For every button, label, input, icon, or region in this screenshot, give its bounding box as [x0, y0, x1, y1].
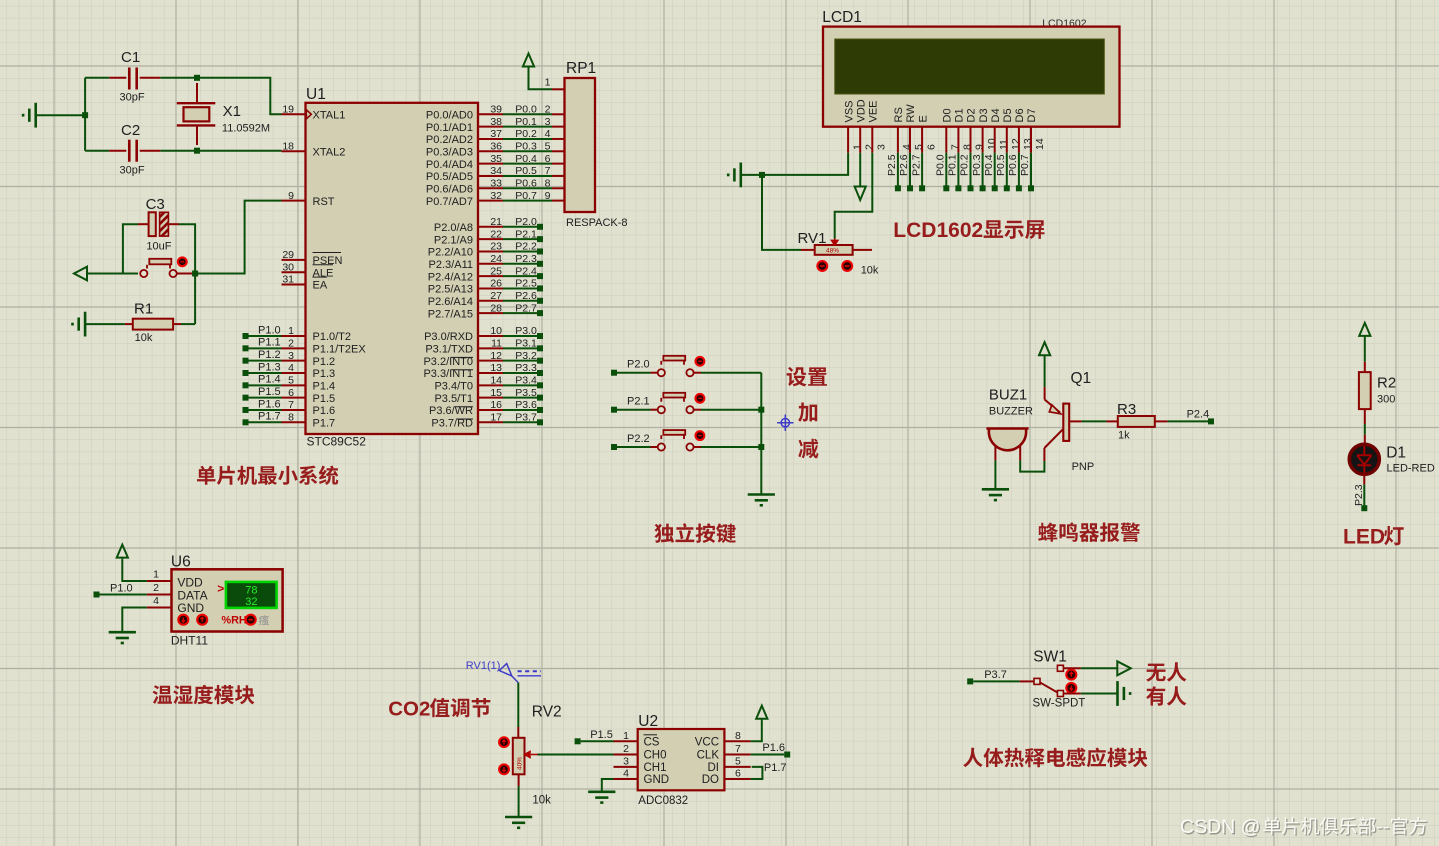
- svg-text:>: >: [217, 581, 224, 595]
- svg-text:38: 38: [490, 116, 502, 128]
- U6 pin 2 DATA: [147, 594, 172, 596]
- RV2 actuator up: [499, 737, 509, 747]
- DHT11 actuator down: [178, 615, 188, 625]
- wire CLK to P1.6: [751, 754, 785, 756]
- svg-text:P1.7: P1.7: [313, 418, 336, 430]
- svg-text:P2.4: P2.4: [515, 265, 537, 277]
- svg-text:30pF: 30pF: [120, 92, 145, 104]
- capacitor C3 10uF electrolytic: [149, 212, 156, 236]
- ground terminal at R1: [73, 312, 86, 337]
- ground terminal left of crystal: [23, 103, 36, 128]
- pin 28 P2.7 stub + wire: [478, 312, 503, 314]
- svg-text:18: 18: [282, 140, 294, 152]
- node LCD ground junction: [759, 172, 765, 178]
- svg-text:P0.0/AD0: P0.0/AD0: [426, 110, 473, 122]
- LED D1 LED-RED: [1349, 444, 1379, 474]
- power terminal U2: [756, 706, 767, 724]
- ground terminal SW1: [1118, 681, 1131, 706]
- wire RP1 pin1 to VCC: [529, 67, 553, 90]
- svg-text:1k: 1k: [1118, 430, 1130, 442]
- svg-text:14: 14: [490, 375, 502, 387]
- svg-text:XTAL1: XTAL1: [313, 110, 346, 122]
- svg-text:PNP: PNP: [1072, 461, 1095, 473]
- svg-text:P0.4: P0.4: [515, 153, 537, 165]
- svg-text:12: 12: [490, 350, 502, 362]
- wire Q1 base to R3: [1069, 420, 1081, 422]
- svg-text:6: 6: [288, 387, 294, 399]
- svg-text:LED: LED: [1343, 526, 1385, 549]
- svg-text:30pF: 30pF: [120, 165, 145, 177]
- svg-text:P1.5: P1.5: [313, 393, 336, 405]
- svg-text:RESPACK-8: RESPACK-8: [566, 217, 628, 229]
- svg-text:RV1: RV1: [798, 230, 827, 247]
- svg-text:11.0592M: 11.0592M: [222, 123, 270, 135]
- svg-text:6: 6: [735, 768, 741, 780]
- ground terminal buzzer: [982, 489, 1009, 500]
- U6 pin 1 VDD: [147, 580, 172, 582]
- pin 1 P1.0 stub + wire + terminal: [282, 335, 306, 337]
- svg-text:P2.0/A8: P2.0/A8: [434, 222, 473, 234]
- U2 pin 8 stub: [724, 740, 750, 742]
- svg-text:78: 78: [245, 585, 257, 597]
- svg-text:DO: DO: [702, 774, 719, 786]
- label set key: [787, 367, 827, 387]
- svg-text:C1: C1: [121, 49, 140, 66]
- svg-text:P3.6: P3.6: [515, 399, 537, 411]
- svg-text:P2.3/A11: P2.3/A11: [429, 259, 473, 271]
- svg-text:24: 24: [490, 253, 502, 265]
- RV1 actuator plus: [842, 261, 852, 271]
- svg-text:RP1: RP1: [566, 60, 596, 77]
- pin 3 P1.2 stub + wire + terminal: [282, 360, 306, 362]
- RP1 pin 1 stub: [552, 88, 565, 90]
- wire left rail: [84, 78, 86, 151]
- wire LCD D6 net P0.6: [1018, 153, 1020, 186]
- svg-text:P0.3: P0.3: [971, 154, 983, 176]
- svg-text:39: 39: [490, 104, 502, 116]
- svg-text:P0.6: P0.6: [1007, 154, 1019, 176]
- svg-text:48%: 48%: [826, 248, 839, 255]
- svg-text:CH1: CH1: [644, 762, 667, 774]
- svg-text:P2.6: P2.6: [898, 154, 910, 176]
- origin marker: [777, 415, 793, 431]
- wire U1 pin 37 P0.2 to RP1 pin 4: [478, 138, 503, 140]
- svg-text:ADC0832: ADC0832: [638, 795, 688, 807]
- svg-text:P2.6: P2.6: [515, 290, 537, 302]
- pin 26 P2.5 stub + wire: [478, 287, 503, 289]
- SW1 actuator down: [1066, 683, 1076, 693]
- svg-text:19: 19: [282, 104, 294, 116]
- svg-text:9: 9: [545, 190, 551, 202]
- svg-text:D6: D6: [1014, 108, 1026, 122]
- svg-text:P1.5: P1.5: [590, 729, 613, 741]
- potentiometer RV2 10k: [513, 738, 525, 775]
- svg-text:4: 4: [288, 362, 294, 374]
- svg-text:P3.0: P3.0: [515, 325, 537, 337]
- svg-text:10: 10: [986, 138, 998, 150]
- svg-text:P3.2: P3.2: [515, 350, 537, 362]
- svg-text:1: 1: [153, 569, 159, 581]
- svg-text:26: 26: [490, 278, 502, 290]
- pin 19 XTAL1 clock-input arrow: [306, 110, 311, 119]
- wire GND to ground: [122, 608, 147, 633]
- svg-text:7: 7: [545, 165, 551, 177]
- svg-text:P2.2: P2.2: [627, 433, 650, 445]
- svg-text:1: 1: [545, 77, 551, 89]
- wire LCD D0 net P0.0: [945, 153, 947, 186]
- push button key P2.2: [651, 446, 658, 448]
- svg-text:P0.0: P0.0: [515, 104, 537, 116]
- svg-text:40%: 40%: [517, 757, 524, 770]
- U2 pin 2 stub: [614, 754, 638, 756]
- svg-text:P3.4/T0: P3.4/T0: [434, 381, 473, 393]
- svg-text:P1.4: P1.4: [313, 381, 336, 393]
- U2 pin 4 stub: [614, 778, 638, 780]
- svg-text:D0: D0: [942, 108, 954, 122]
- svg-text:P2.7: P2.7: [910, 154, 922, 176]
- pin 2 P1.1 stub + wire + terminal: [282, 347, 306, 349]
- wire LCD RS net P2.5: [897, 153, 899, 186]
- svg-text:DHT11: DHT11: [171, 634, 208, 648]
- svg-text:D3: D3: [978, 108, 990, 122]
- svg-text:%RH: %RH: [222, 614, 247, 626]
- svg-text:D1: D1: [954, 108, 966, 122]
- svg-text:4: 4: [901, 144, 913, 150]
- pin 7 P1.6 stub + wire + terminal: [282, 409, 306, 411]
- wire U1 pin 39 P0.0 to RP1 pin 2: [478, 113, 503, 115]
- svg-text:P0.4: P0.4: [983, 154, 995, 176]
- svg-text:RW: RW: [905, 104, 917, 123]
- wire ground junction down to RV1: [762, 175, 801, 250]
- wire R2 to D1: [1364, 424, 1366, 435]
- ground terminal left of LCD: [728, 163, 741, 188]
- U2 pin 3 stub: [614, 766, 638, 768]
- svg-text:29: 29: [282, 249, 294, 261]
- wire U1 pin 33 P0.6 to RP1 pin 8: [478, 187, 503, 189]
- svg-text:9: 9: [974, 144, 986, 150]
- svg-text:BUZZER: BUZZER: [989, 406, 1033, 418]
- pin 21 P2.0 stub + wire: [478, 226, 503, 228]
- svg-text:D2: D2: [966, 108, 978, 122]
- wire DATA to P1.0: [100, 594, 147, 596]
- svg-text:P3.4: P3.4: [515, 375, 537, 387]
- pin 6 P1.5 stub + wire + terminal: [282, 397, 306, 399]
- svg-text:P2.3: P2.3: [1353, 484, 1365, 506]
- svg-text:DI: DI: [708, 762, 720, 774]
- svg-text:P2.4: P2.4: [1187, 409, 1210, 421]
- RV1 actuator minus: [817, 261, 827, 271]
- node bus junction 1: [758, 407, 764, 413]
- svg-text:P3.5/T1: P3.5/T1: [434, 393, 473, 405]
- svg-text:CLK: CLK: [697, 750, 720, 762]
- potentiometer RV1 10k: [801, 249, 815, 251]
- capacitor C2 30pF: [85, 150, 109, 152]
- resistor pack RP1 RESPACK-8: [565, 78, 596, 212]
- node bus junction 2: [758, 444, 764, 450]
- pin 17 P3.7 stub + wire: [478, 421, 503, 423]
- node C2/X1 junction: [194, 148, 200, 154]
- svg-text:CO2: CO2: [388, 698, 430, 721]
- svg-text:P2.2/A10: P2.2/A10: [428, 247, 473, 259]
- power terminal LCD VDD (down arrow): [859, 153, 861, 187]
- svg-text:P2.6/A14: P2.6/A14: [428, 296, 473, 308]
- svg-text:P1.2: P1.2: [313, 356, 336, 368]
- power terminal DHT11: [117, 545, 128, 560]
- svg-text:P2.2: P2.2: [515, 241, 537, 253]
- capacitor C1 30pF: [85, 77, 109, 79]
- svg-text:X1: X1: [223, 103, 241, 120]
- wire LCD VSS to ground: [762, 153, 848, 175]
- resistor R3 1k: [1106, 420, 1117, 422]
- svg-text:34: 34: [490, 165, 502, 177]
- pin 25 P2.4 stub + wire: [478, 275, 503, 277]
- svg-text:VSS: VSS: [843, 100, 855, 122]
- svg-text:31: 31: [282, 274, 294, 286]
- U2 pin 6 stub: [724, 778, 750, 780]
- svg-text:32: 32: [245, 596, 257, 608]
- svg-text:11: 11: [491, 338, 502, 350]
- node left rail junction: [82, 112, 88, 118]
- power terminal LED: [1359, 323, 1370, 362]
- svg-text:1: 1: [851, 144, 863, 150]
- svg-text:P2.1: P2.1: [515, 228, 537, 240]
- svg-text:9: 9: [288, 190, 294, 202]
- wire key ground bus: [760, 373, 762, 495]
- pin 13 P3.3 stub + wire: [478, 372, 503, 374]
- svg-text:4: 4: [153, 595, 159, 607]
- RV2 actuator down: [499, 764, 509, 774]
- svg-text:27: 27: [490, 290, 502, 302]
- pin 31 EA stub: [282, 284, 306, 286]
- reset output terminal arrow: [74, 267, 87, 281]
- svg-text:P1.6: P1.6: [762, 742, 785, 754]
- svg-text:GND: GND: [177, 601, 204, 615]
- wire D1 to P2.3: [1363, 474, 1365, 485]
- svg-text:P0.5: P0.5: [515, 165, 537, 177]
- svg-text:5: 5: [288, 375, 294, 387]
- svg-text:P0.1: P0.1: [947, 154, 959, 176]
- wire U1 pin 35 P0.4 to RP1 pin 6: [478, 163, 503, 165]
- svg-text:U6: U6: [171, 554, 191, 571]
- U2 pin 7 stub: [724, 754, 750, 756]
- svg-text:3: 3: [876, 144, 888, 150]
- svg-text:P1.0/T2: P1.0/T2: [313, 331, 352, 343]
- pin 11 P3.1 stub + wire: [478, 347, 503, 349]
- svg-text:P2.0: P2.0: [515, 216, 537, 228]
- key terminal P2.0: [611, 370, 617, 376]
- wire LCD D4 net P0.4: [994, 153, 996, 186]
- pin 9 RST stub: [282, 200, 306, 202]
- svg-text:25: 25: [490, 265, 502, 277]
- svg-text:CS: CS: [644, 737, 660, 749]
- svg-text:P0.7: P0.7: [1019, 154, 1031, 176]
- push button key P2.1: [651, 409, 658, 411]
- svg-text:2: 2: [288, 338, 294, 350]
- svg-text:P0.3/AD3: P0.3/AD3: [426, 146, 473, 158]
- svg-text:P1.4: P1.4: [258, 374, 281, 386]
- svg-text:32: 32: [490, 190, 502, 202]
- svg-text:P0.3: P0.3: [515, 140, 537, 152]
- svg-text:STC89C52: STC89C52: [307, 435, 367, 449]
- power terminal buzzer: [1039, 342, 1050, 387]
- svg-text:BUZ1: BUZ1: [989, 387, 1027, 404]
- svg-text:37: 37: [490, 128, 502, 140]
- pin 8 P1.7 stub + wire + terminal: [282, 421, 306, 423]
- svg-text:P0.6/AD6: P0.6/AD6: [426, 183, 473, 195]
- svg-text:10uF: 10uF: [146, 241, 171, 253]
- pin 24 P2.3 stub + wire: [478, 263, 503, 265]
- label no person: [1146, 662, 1186, 681]
- svg-text:8: 8: [962, 144, 974, 150]
- svg-text:8: 8: [545, 177, 551, 189]
- svg-text:13: 13: [1022, 138, 1034, 150]
- svg-text:P1.2: P1.2: [258, 349, 281, 361]
- pin 22 P2.1 stub + wire: [478, 238, 503, 240]
- SW1 actuator up: [1066, 670, 1076, 680]
- svg-text:P1.6: P1.6: [313, 405, 336, 417]
- svg-text:2: 2: [863, 144, 875, 150]
- wire VCC to power: [751, 724, 762, 742]
- svg-text:SW-SPDT: SW-SPDT: [1033, 698, 1086, 710]
- svg-text:P0.4/AD4: P0.4/AD4: [426, 159, 473, 171]
- svg-text:23: 23: [490, 241, 502, 253]
- buzzer left leg to ground: [994, 446, 996, 461]
- svg-text:P1.6: P1.6: [258, 398, 281, 410]
- svg-text:22: 22: [490, 228, 502, 240]
- pin 30 ALE stub: [282, 271, 306, 273]
- DHT11 actuator left-right: [246, 615, 256, 625]
- svg-text:RV1(1): RV1(1): [466, 660, 501, 672]
- svg-text:P1.0: P1.0: [258, 324, 281, 336]
- pin 14 P3.4 stub + wire: [478, 384, 503, 386]
- svg-text:P2.5: P2.5: [515, 278, 537, 290]
- svg-text:U1: U1: [306, 86, 326, 103]
- wire LCD D5 net P0.5: [1006, 153, 1008, 186]
- pin 10 P3.0 stub + wire: [478, 335, 503, 337]
- svg-text:P0.7: P0.7: [515, 190, 537, 202]
- svg-text:11: 11: [998, 139, 1010, 150]
- pin 15 P3.5 stub + wire: [478, 397, 503, 399]
- wire LCD E net P2.7: [921, 153, 923, 186]
- wire SW1 bottom throw to ground: [1064, 693, 1081, 695]
- label heading buzzer alarm: [1038, 522, 1140, 542]
- svg-text:LCD1: LCD1: [822, 9, 862, 26]
- svg-text:P0.1/AD1: P0.1/AD1: [426, 122, 473, 134]
- svg-text:14: 14: [1034, 138, 1046, 150]
- svg-text:GND: GND: [644, 774, 670, 786]
- svg-text:P2.0: P2.0: [627, 359, 650, 371]
- svg-text:P0.6: P0.6: [515, 177, 537, 189]
- svg-text:RS: RS: [893, 107, 905, 122]
- wire VDD to power: [122, 559, 147, 581]
- wire LCD RW net P2.6: [909, 153, 911, 186]
- svg-text:4: 4: [623, 768, 629, 780]
- svg-text:D5: D5: [1002, 108, 1014, 122]
- svg-text:30: 30: [282, 261, 294, 273]
- svg-text:P1.7: P1.7: [258, 411, 281, 423]
- wire key P2.1 to bus: [694, 409, 701, 411]
- svg-text:P2.3: P2.3: [515, 253, 537, 265]
- ground terminal RV2: [505, 817, 532, 828]
- svg-text:28: 28: [490, 302, 502, 314]
- svg-text:P3.3: P3.3: [515, 362, 537, 374]
- label minus key: [798, 439, 818, 459]
- svg-text:1: 1: [288, 325, 294, 337]
- label person present: [1146, 686, 1186, 705]
- svg-text:10k: 10k: [532, 795, 551, 807]
- wire C3 right to reset node: [168, 223, 179, 225]
- push button reset: [140, 270, 147, 277]
- svg-text:P1.0: P1.0: [110, 583, 133, 595]
- terminal P1.5 to CS: [575, 738, 581, 744]
- label plus key: [798, 403, 817, 422]
- key terminal P2.2: [611, 444, 617, 450]
- label heading MCU minimal system: [197, 466, 338, 485]
- U2 pin 5 stub: [724, 766, 750, 768]
- node reset junction: [192, 271, 198, 277]
- svg-text:300: 300: [1377, 394, 1395, 406]
- svg-text:CSDN @: CSDN @: [1180, 816, 1260, 838]
- svg-text:3: 3: [288, 350, 294, 362]
- svg-text:P2.5/A13: P2.5/A13: [428, 284, 473, 296]
- svg-text:21: 21: [490, 216, 502, 228]
- label heading humiture module: [153, 685, 255, 705]
- svg-text:16: 16: [490, 399, 502, 411]
- svg-text:P2.7: P2.7: [515, 302, 537, 314]
- wire U1 pin 32 P0.7 to RP1 pin 9: [478, 200, 503, 202]
- svg-text:P3.1/TXD: P3.1/TXD: [425, 344, 473, 356]
- svg-text:P3.0/RXD: P3.0/RXD: [424, 331, 473, 343]
- pin 16 P3.6 stub + wire: [478, 409, 503, 411]
- svg-text:7: 7: [735, 743, 741, 755]
- wire RV2 top: [517, 683, 519, 727]
- svg-text:P0.2/AD2: P0.2/AD2: [426, 134, 473, 146]
- power terminal VCC above RP1: [523, 54, 534, 68]
- svg-text:13: 13: [490, 362, 502, 374]
- DHT11 actuator up: [197, 615, 207, 625]
- svg-text:P0.0: P0.0: [935, 154, 947, 176]
- svg-text:8: 8: [288, 412, 294, 424]
- wire U1 pin 38 P0.1 to RP1 pin 3: [478, 126, 503, 128]
- ground terminal keys: [748, 495, 775, 506]
- resistor R2 300: [1364, 362, 1366, 372]
- wire DO to DI net P1.7: [751, 767, 763, 779]
- svg-text:P1.3: P1.3: [258, 361, 281, 373]
- svg-text:3: 3: [623, 755, 629, 767]
- svg-text:XTAL2: XTAL2: [313, 146, 346, 158]
- resistor R1 10k: [133, 319, 173, 330]
- ground terminal U2: [588, 792, 615, 803]
- svg-text:D4: D4: [990, 108, 1002, 122]
- wire U1 pin 34 P0.5 to RP1 pin 7: [478, 175, 503, 177]
- svg-text:10k: 10k: [135, 332, 153, 344]
- svg-text:33: 33: [490, 177, 502, 189]
- push button key P2.0: [651, 372, 658, 374]
- ground terminal DHT11: [109, 632, 136, 643]
- svg-text:2: 2: [545, 104, 551, 116]
- svg-text:P0.2: P0.2: [959, 154, 971, 176]
- wire reset button to RST: [177, 273, 195, 275]
- svg-text:U2: U2: [638, 713, 658, 730]
- pin 19 XTAL1 stub: [282, 113, 306, 115]
- svg-text:R3: R3: [1117, 401, 1136, 418]
- svg-text:5: 5: [545, 140, 551, 152]
- svg-text:C3: C3: [146, 196, 165, 213]
- svg-text:7: 7: [288, 399, 294, 411]
- svg-text:P1.1: P1.1: [258, 337, 281, 349]
- svg-text:LCD1602: LCD1602: [893, 219, 983, 242]
- label heading PIR module: [963, 748, 1147, 768]
